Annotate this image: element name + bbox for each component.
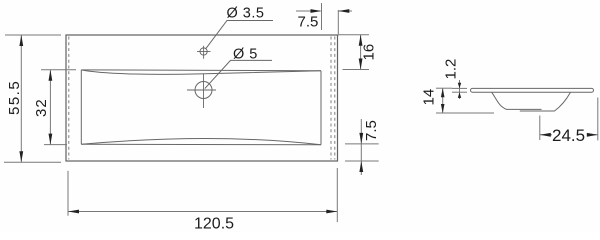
svg-text:16: 16 [361,44,378,61]
svg-text:55.5: 55.5 [6,80,23,115]
svg-text:Ø 3.5: Ø 3.5 [227,6,265,22]
svg-text:Ø 5: Ø 5 [233,46,258,62]
svg-text:120.5: 120.5 [194,216,234,233]
svg-text:7.5: 7.5 [298,14,319,31]
svg-text:32: 32 [33,98,50,117]
svg-text:1.2: 1.2 [443,59,460,80]
svg-text:24.5: 24.5 [552,126,585,145]
svg-text:7.5: 7.5 [363,120,380,141]
svg-text:14: 14 [421,89,438,106]
